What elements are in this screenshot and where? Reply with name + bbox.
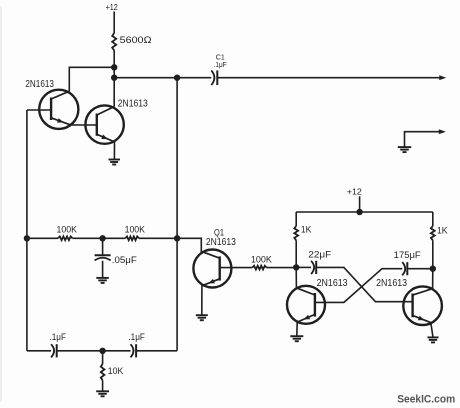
svg-text:1K: 1K xyxy=(437,226,448,236)
resistor 100K (left) xyxy=(57,224,77,240)
svg-text:2N1613: 2N1613 xyxy=(317,278,348,289)
svg-text:2N1613: 2N1613 xyxy=(376,278,407,289)
capacitor C1 .1μF xyxy=(211,53,227,86)
node rail junction xyxy=(356,209,362,215)
wire node A1 to T2 collector xyxy=(113,67,115,106)
wire R100K-c to node D xyxy=(267,267,297,269)
resistor 100K (middle) xyxy=(125,224,145,240)
capacitor .05μF xyxy=(95,255,138,265)
node top-line junction xyxy=(174,75,180,81)
svg-text:+12: +12 xyxy=(347,187,362,197)
svg-text:100K: 100K xyxy=(57,224,77,234)
wire T2 emitter to ground xyxy=(113,142,115,160)
wire C6 to middle bus xyxy=(136,350,177,352)
transistor T2 2N1613 (lower-left) xyxy=(85,99,148,144)
wire supply rail xyxy=(296,211,433,213)
resistor 1K (left) xyxy=(294,212,311,240)
wire Q2 emitter to ground xyxy=(296,322,298,337)
wire node F to R 10K xyxy=(102,351,104,364)
svg-text:+12: +12 xyxy=(106,2,118,12)
node middle-bus junction xyxy=(174,235,180,241)
wire C4 to Q2 base (cross) xyxy=(315,269,402,303)
node D junction xyxy=(293,264,299,270)
capacitor 175μF xyxy=(394,250,422,275)
svg-text:.05μF: .05μF xyxy=(112,255,138,265)
wire T1 collector to node A1 xyxy=(69,67,114,91)
wire R1K-left to node D xyxy=(295,240,297,267)
wire Q1 base lead xyxy=(220,267,253,269)
wire +12 to rail xyxy=(359,196,361,212)
wire C2 to ground xyxy=(102,261,104,278)
ground at T2 emitter xyxy=(109,159,121,161)
scan edge artifact xyxy=(0,6,2,402)
transistor Q3 2N1613 (flip-flop right) xyxy=(376,278,442,325)
resistor 100K (Q1 base) xyxy=(251,254,272,269)
svg-text:10K: 10K xyxy=(108,366,124,376)
svg-text:.1μF: .1μF xyxy=(50,332,67,342)
wire ground return to output arrow xyxy=(405,132,441,147)
capacitor 22μF xyxy=(308,249,332,274)
wire node A2 to C1 xyxy=(114,77,211,79)
svg-text:2N1613: 2N1613 xyxy=(25,79,54,90)
wire R10K to ground xyxy=(102,380,104,391)
node A1 junction xyxy=(111,64,117,70)
wire C3 to Q3 base (cross) xyxy=(316,267,412,301)
transistor Q2 2N1613 (flip-flop left) xyxy=(287,278,348,324)
svg-text:2N1613: 2N1613 xyxy=(206,237,236,248)
wire R1K-right to node E xyxy=(432,240,434,268)
wire node C to C2 xyxy=(102,238,104,255)
wire left bus vertical xyxy=(26,110,28,238)
wire node D to C3 xyxy=(296,266,311,268)
output terminal arrow (top) xyxy=(439,75,446,80)
wire T1 base to left bus xyxy=(27,109,51,111)
resistor 10K xyxy=(101,364,124,380)
wire node D to Q2 collector xyxy=(295,267,297,288)
wire C1 to output arrow xyxy=(217,77,440,79)
wire R5600 to node A1 xyxy=(113,51,115,68)
ground at Q2 emitter xyxy=(290,335,303,337)
svg-text:22μF: 22μF xyxy=(308,249,332,259)
node left-bus junction xyxy=(24,235,30,241)
wire +12 to R 5600 xyxy=(113,12,115,34)
resistor 1K (right) xyxy=(431,212,448,240)
wire C4 to node E xyxy=(407,268,433,270)
wire left bus to C5 xyxy=(27,350,51,352)
transistor Q1 2N1613 xyxy=(193,227,236,287)
wire middle bus vertical xyxy=(176,78,178,351)
node F junction xyxy=(99,348,105,354)
svg-text:1K: 1K xyxy=(301,224,312,234)
ground at Q3 emitter xyxy=(428,336,439,338)
capacitor .1μF (right) xyxy=(128,332,145,357)
svg-text:SeekIC.com: SeekIC.com xyxy=(397,394,455,406)
ground at C2 xyxy=(96,277,109,279)
svg-text:100K: 100K xyxy=(251,254,272,264)
wire left bus to R 100K-a xyxy=(27,237,58,239)
svg-text:.1μF: .1μF xyxy=(128,332,145,342)
wire R100K-a to node C xyxy=(73,237,126,239)
node A2 junction xyxy=(111,75,117,81)
svg-text:175μF: 175μF xyxy=(394,250,422,260)
node C junction xyxy=(99,235,105,241)
svg-text:5600Ω: 5600Ω xyxy=(120,35,152,46)
wire left bus lower vertical xyxy=(26,238,28,350)
output terminal arrow (return) xyxy=(439,129,446,134)
wire Q3 emitter to ground xyxy=(431,323,433,338)
wire node E to Q3 collector xyxy=(432,269,434,290)
svg-text:2N1613: 2N1613 xyxy=(118,99,148,110)
svg-text:.1μF: .1μF xyxy=(214,60,227,69)
ground at Q1 emitter xyxy=(196,314,208,316)
wire Q1 emitter to ground xyxy=(201,285,203,315)
transistor T1 2N1613 (upper-left) xyxy=(25,79,78,129)
capacitor .1μF (left) xyxy=(50,332,67,357)
svg-text:100K: 100K xyxy=(125,224,145,234)
resistor 5600Ω xyxy=(112,33,152,51)
wire middle bus to Q1 collector xyxy=(177,238,201,253)
wire C5 to node F xyxy=(57,350,131,352)
ground at R10K xyxy=(96,390,109,392)
node E junction xyxy=(430,266,436,272)
wire R100K-b to middle bus xyxy=(139,237,177,239)
wire T1 emitter to T2 base xyxy=(70,124,96,126)
ground at output return xyxy=(398,146,411,148)
svg-text:Q1: Q1 xyxy=(214,227,224,237)
